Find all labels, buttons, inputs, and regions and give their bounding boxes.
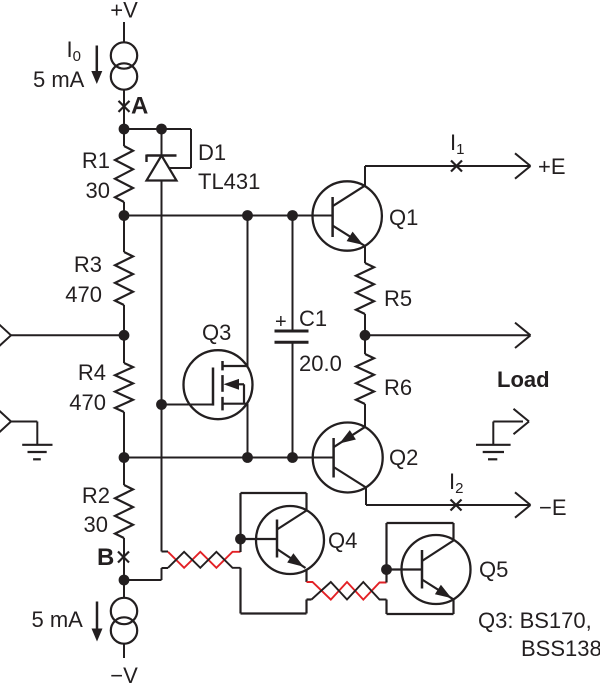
- svg-text:+V: +V: [110, 0, 138, 23]
- svg-text:5 mA: 5 mA: [33, 67, 85, 92]
- svg-text:BSS138: BSS138: [521, 636, 600, 661]
- svg-text:R2: R2: [82, 483, 110, 508]
- svg-text:30: 30: [86, 178, 110, 203]
- svg-text:+: +: [275, 311, 287, 333]
- svg-text:470: 470: [65, 282, 102, 307]
- svg-text:5 mA: 5 mA: [32, 607, 84, 632]
- svg-text:+E: +E: [538, 154, 566, 179]
- svg-text:B: B: [97, 544, 114, 571]
- svg-text:30: 30: [84, 512, 108, 537]
- svg-text:R1: R1: [82, 148, 110, 173]
- svg-text:Q2: Q2: [389, 445, 418, 470]
- svg-text:Load: Load: [497, 367, 550, 392]
- svg-text:C1: C1: [299, 306, 327, 331]
- svg-text:Q1: Q1: [389, 205, 418, 230]
- svg-text:R5: R5: [384, 286, 412, 311]
- svg-text:D1: D1: [198, 140, 226, 165]
- svg-text:470: 470: [69, 390, 106, 415]
- svg-text:R6: R6: [384, 375, 412, 400]
- svg-text:Q3: BS170,: Q3: BS170,: [478, 608, 592, 633]
- svg-text:R4: R4: [78, 360, 106, 385]
- svg-text:TL431: TL431: [198, 169, 260, 194]
- svg-text:Q4: Q4: [328, 528, 357, 553]
- svg-text:A: A: [131, 93, 148, 120]
- svg-text:−E: −E: [539, 495, 567, 520]
- svg-text:Q5: Q5: [479, 557, 508, 582]
- svg-text:R3: R3: [74, 252, 102, 277]
- svg-text:−V: −V: [110, 663, 138, 686]
- svg-text:Q3: Q3: [202, 320, 231, 345]
- svg-text:20.0: 20.0: [299, 351, 342, 376]
